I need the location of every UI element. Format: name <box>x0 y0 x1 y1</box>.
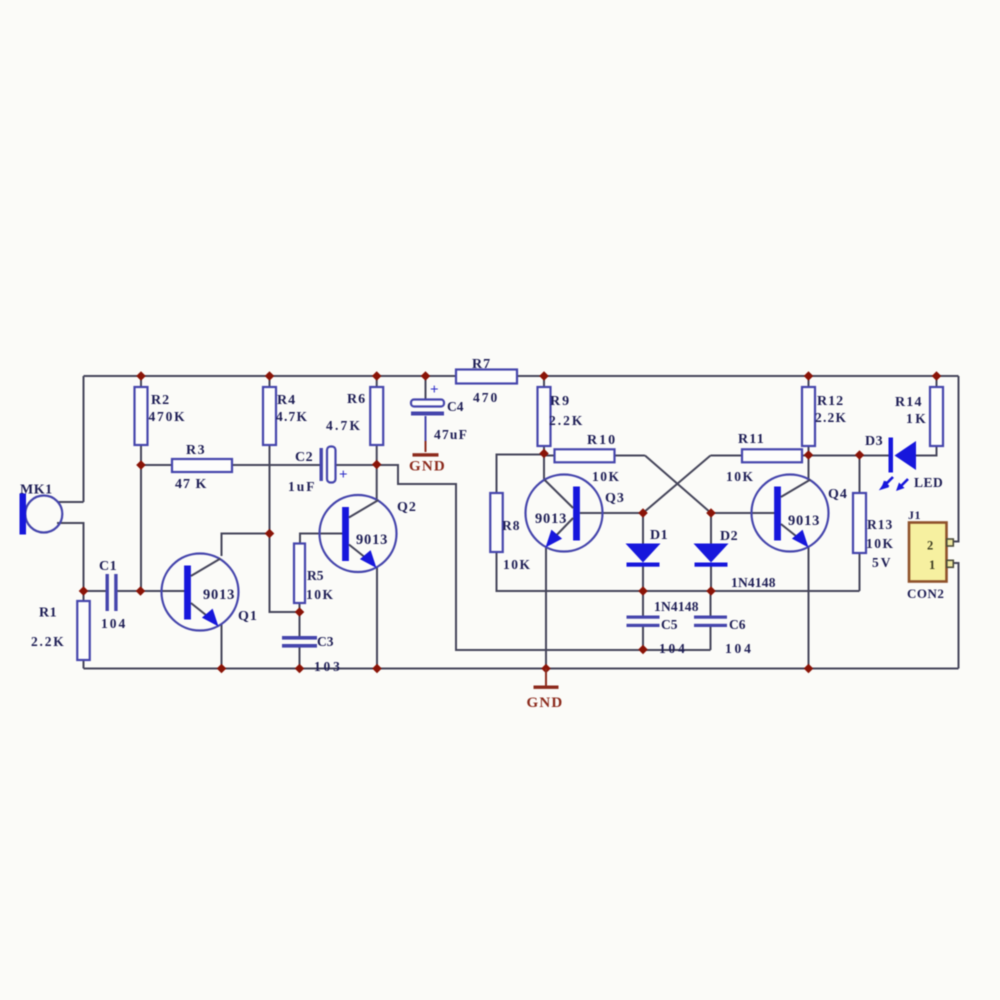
svg-text:CON2: CON2 <box>907 586 944 601</box>
capacitor C1 <box>106 574 118 611</box>
svg-text:C4: C4 <box>447 399 464 414</box>
capacitor C2 (polarized) <box>320 447 336 483</box>
svg-text:Q1: Q1 <box>238 609 258 624</box>
svg-text:C1: C1 <box>99 559 117 574</box>
svg-text:9013: 9013 <box>356 532 388 548</box>
resistor R4 <box>263 387 276 445</box>
wire R6 top lead <box>376 376 378 387</box>
svg-text:4.7K: 4.7K <box>276 409 308 424</box>
wire C1 right plate to Q1 base <box>118 590 188 592</box>
svg-text:GND: GND <box>409 459 446 475</box>
transistor Q4 <box>752 475 829 552</box>
svg-text:1N4148: 1N4148 <box>654 599 699 614</box>
svg-text:R7: R7 <box>472 357 491 372</box>
wire R2 bottom lead down through R3 node to C1 node <box>140 445 142 591</box>
wire Q4 base lead <box>711 512 776 514</box>
wire C3 top lead <box>299 612 301 636</box>
svg-text:47 K: 47 K <box>175 477 207 492</box>
wire R3 left lead <box>141 464 172 466</box>
resistor R1 <box>77 601 90 660</box>
svg-text:10K: 10K <box>866 536 895 551</box>
diode D2 1N4148 <box>694 544 729 567</box>
node C5 bottom <box>638 645 648 655</box>
svg-text:R8: R8 <box>502 518 521 533</box>
wire C2 right plate to R6 node <box>335 464 377 466</box>
wire R11 left lead <box>711 455 743 457</box>
resistor R5 <box>294 544 305 604</box>
wire C3 bottom lead <box>299 648 301 669</box>
wire C6 bottom lead <box>710 627 712 650</box>
svg-text:LED: LED <box>914 475 943 490</box>
capacitor C3 <box>282 636 317 648</box>
svg-text:9013: 9013 <box>788 513 820 529</box>
node C2+/R6 <box>372 460 382 470</box>
svg-text:10K: 10K <box>726 469 755 484</box>
wire R10 right end to diagonal start <box>615 455 646 457</box>
wire R6 bottom lead to C2+ node and Q2 collector <box>376 445 378 500</box>
wire MK1 top lead <box>57 501 84 503</box>
wire R8 bottom lead and D1/D2-cathode bus to R13 bottom <box>497 552 860 591</box>
wire D2 cathode lead <box>710 567 712 592</box>
wire R13 bottom lead <box>859 553 861 591</box>
svg-text:C3: C3 <box>317 634 334 649</box>
node ground rail / GND <box>541 664 551 674</box>
node MK1/R1/C1 <box>79 586 89 596</box>
svg-text:D2: D2 <box>720 529 738 544</box>
wire Q3 collector to R9 node <box>543 454 545 481</box>
svg-text:Q2: Q2 <box>397 500 417 515</box>
svg-text:MK1: MK1 <box>20 483 53 498</box>
transistor Q2 <box>320 495 397 572</box>
wire R1 bottom lead <box>83 660 85 669</box>
wire R14 top lead <box>936 376 938 387</box>
node ground rail / Q4 emitter <box>804 664 814 674</box>
wire C5 top lead <box>642 591 644 616</box>
wire cross-couple diagonal R10 to D2/Q4-base node <box>645 456 711 514</box>
node ground rail / Q1 emitter <box>217 664 227 674</box>
resistor R13 <box>853 493 866 553</box>
svg-text:+: + <box>339 467 348 483</box>
svg-text:R10: R10 <box>587 433 617 448</box>
node ground rail / C3 <box>295 664 305 674</box>
resistor R6 <box>370 387 383 445</box>
wire C6 top lead <box>710 591 712 616</box>
wire node R1/C1 to C1 left plate <box>84 590 107 592</box>
wire right rail down to J1 pin 2 <box>947 376 959 542</box>
svg-text:10K: 10K <box>306 587 335 602</box>
svg-text:104: 104 <box>659 641 688 656</box>
wire R4 bottom lead down to R5/C3 node <box>270 445 300 612</box>
wire J1 pin 1 to bottom ground rail <box>947 563 959 669</box>
svg-text:R2: R2 <box>151 393 170 408</box>
wire R12 bottom lead to collector node <box>808 446 810 456</box>
svg-text:47uF: 47uF <box>434 427 468 442</box>
capacitor C5 <box>627 616 660 628</box>
svg-text:9013: 9013 <box>203 587 235 603</box>
node R4/R5/C3 <box>295 607 305 617</box>
resistor R7 <box>456 370 517 384</box>
resistor R10 <box>555 449 615 462</box>
svg-text:D3: D3 <box>865 434 883 449</box>
wire MK1 bottom lead down to node at R1 <box>57 523 84 591</box>
node top rail / R6 <box>372 371 382 381</box>
wire C2+/R6 node jog to C5/C6 bottoms <box>377 465 711 650</box>
svg-text:10K: 10K <box>503 557 532 572</box>
node R2/R3 <box>136 460 146 470</box>
svg-text:104: 104 <box>725 641 754 656</box>
wire D1 cathode lead <box>642 567 644 592</box>
microphone MK1 <box>20 494 63 535</box>
connector J1 CON2 <box>909 523 953 582</box>
svg-text:1N4148: 1N4148 <box>731 575 776 590</box>
node ground rail / Q2 emitter <box>372 664 382 674</box>
wire Q4 collector to R12 node <box>808 456 810 480</box>
svg-text:103: 103 <box>314 659 343 674</box>
svg-text:D1: D1 <box>650 528 668 543</box>
resistor R2 <box>135 387 148 445</box>
svg-text:GND: GND <box>527 695 564 711</box>
diode D1 1N4148 <box>626 544 661 567</box>
wire R2 top lead <box>140 376 142 387</box>
wire D1 anode lead <box>642 513 644 544</box>
svg-text:2: 2 <box>927 539 933 553</box>
node Q3 base/D1/R11 <box>638 508 648 518</box>
wire R12 top lead <box>808 376 810 387</box>
node top rail / C4 <box>421 371 431 381</box>
wire Q1 collector to R4 node <box>222 534 270 557</box>
ground symbol at C4 <box>413 453 439 456</box>
wire cross-couple diagonal R11 to D1/Q3-base node <box>643 456 711 514</box>
svg-text:470: 470 <box>473 390 499 405</box>
resistor R14 <box>930 387 943 446</box>
svg-text:4.7K: 4.7K <box>326 418 362 433</box>
svg-text:+: + <box>430 382 439 398</box>
wire R8 top lead to R9/R10 node <box>497 455 545 494</box>
node top rail / R2 <box>136 371 146 381</box>
svg-text:Q3: Q3 <box>605 491 625 506</box>
wire Q3 emitter to ground rail <box>545 547 547 669</box>
transistor Q1 <box>162 554 239 631</box>
wire R12 node to D3 cathode <box>809 455 890 457</box>
svg-text:Q4: Q4 <box>828 487 848 502</box>
svg-text:1: 1 <box>929 558 935 572</box>
svg-text:R12: R12 <box>817 394 844 409</box>
svg-text:R13: R13 <box>867 517 893 532</box>
wire C4 bottom lead to ground symbol <box>425 416 427 441</box>
svg-text:2.2K: 2.2K <box>549 413 584 428</box>
node R9/R10/Q3 collector <box>539 449 549 459</box>
node top rail / R14 <box>932 371 942 381</box>
svg-text:R11: R11 <box>738 432 765 447</box>
wire R4 top lead <box>269 376 271 387</box>
svg-text:1K: 1K <box>906 411 928 426</box>
node D2 cathode bus <box>706 586 716 596</box>
svg-text:C5: C5 <box>661 617 678 632</box>
wire R9 top lead <box>543 376 545 387</box>
wire R11 right lead to R12 node <box>802 455 809 457</box>
node C1/R2/Q1 base <box>136 586 146 596</box>
svg-text:2.2K: 2.2K <box>815 410 847 425</box>
wire C5 bottom lead <box>642 627 644 650</box>
wire C4 top lead <box>425 376 427 400</box>
svg-text:C2: C2 <box>295 450 313 465</box>
wire R1 top lead <box>83 591 85 601</box>
transistor Q3 <box>526 475 603 552</box>
resistor R9 <box>538 387 551 446</box>
svg-text:R1: R1 <box>39 606 57 621</box>
svg-text:104: 104 <box>101 616 127 631</box>
wire R13 top lead <box>859 456 861 494</box>
LED D3 <box>881 438 916 492</box>
wire Q4 emitter to ground rail <box>808 547 810 669</box>
svg-text:R14: R14 <box>895 395 923 410</box>
svg-text:R5: R5 <box>307 568 324 583</box>
svg-text:2.2K: 2.2K <box>31 634 66 649</box>
capacitor C4 (polarized electrolytic) <box>411 400 444 416</box>
svg-text:R4: R4 <box>277 393 296 408</box>
wire R9 bottom lead to node <box>543 446 545 454</box>
wire R3 right lead to C2 (crosses R4 lead) <box>232 464 321 466</box>
svg-text:R3: R3 <box>186 443 206 458</box>
resistor R12 <box>802 387 815 446</box>
wire bottom ground rail <box>84 668 959 670</box>
wire top power rail <box>84 375 959 377</box>
wire Q1 emitter to ground rail <box>221 624 223 669</box>
wire left rail vertical (top rail to MK1 top) <box>83 376 85 502</box>
node top rail / R4 <box>265 371 275 381</box>
resistor R3 <box>172 459 232 472</box>
svg-text:R6: R6 <box>347 392 366 407</box>
node Q4 base/D2/R10 <box>706 508 716 518</box>
wire Q2 base to R5 top <box>300 534 345 544</box>
svg-text:10K: 10K <box>592 469 621 484</box>
wire Q3 base lead <box>580 512 643 514</box>
svg-text:C6: C6 <box>729 617 746 632</box>
node R12/Q4 collector/D3 <box>804 450 814 460</box>
wire R5 bottom lead <box>299 603 301 612</box>
wire D2 anode lead <box>710 513 712 544</box>
node D1 cathode bus <box>638 586 648 596</box>
capacitor C6 <box>694 616 727 628</box>
wire Q2 emitter to ground rail <box>376 567 378 669</box>
svg-text:470K: 470K <box>149 409 187 424</box>
svg-text:9013: 9013 <box>535 511 567 527</box>
resistor R11 <box>742 449 802 462</box>
node R4/Q1 collector <box>265 529 275 539</box>
ground symbol at bottom rail <box>534 669 559 689</box>
wire D3 anode to R14 bottom <box>916 446 937 456</box>
wire R9 node to R10 left end <box>544 455 555 457</box>
svg-text:J1: J1 <box>908 508 921 522</box>
svg-text:R9: R9 <box>550 394 571 409</box>
svg-text:1uF: 1uF <box>288 479 317 494</box>
svg-text:5V: 5V <box>872 555 893 570</box>
node top rail / R9 <box>539 371 549 381</box>
node R13 top <box>855 450 865 460</box>
node top rail / R12 <box>804 371 814 381</box>
resistor R8 <box>490 493 503 552</box>
